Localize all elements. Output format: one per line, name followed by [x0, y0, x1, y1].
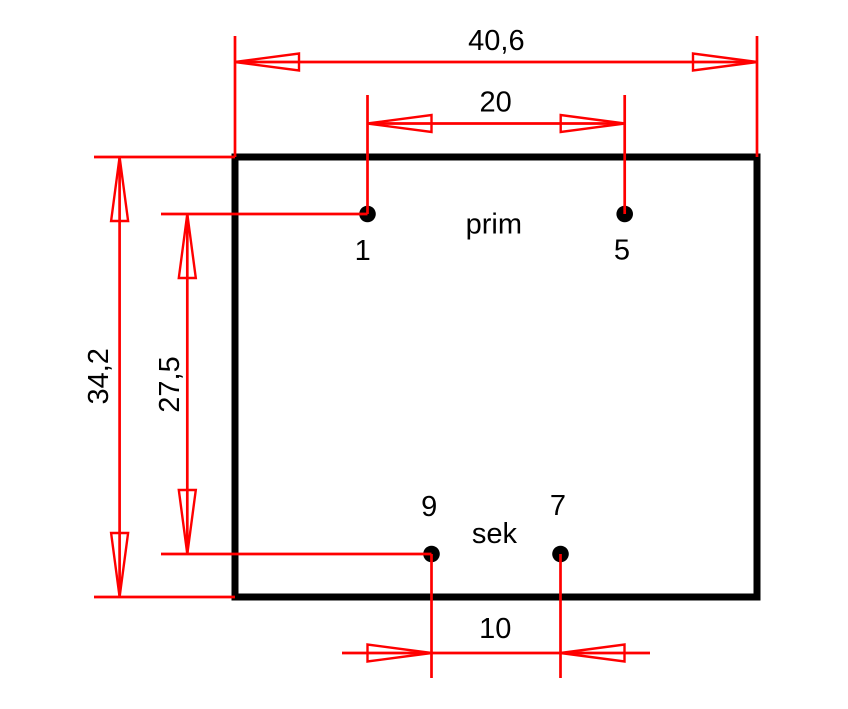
- svg-text:40,6: 40,6: [468, 25, 524, 57]
- dimension label 27,5: [154, 356, 186, 412]
- pin number 7: [550, 490, 566, 522]
- dimension 20 arrowhead left: [368, 115, 432, 132]
- dimension 34,2 extension line bottom: [94, 596, 235, 599]
- pin 9 pad: [423, 546, 440, 563]
- dimension 27,5 extension line top: [161, 213, 368, 216]
- dimension 27,5 arrowhead down: [179, 490, 196, 554]
- svg-text:20: 20: [479, 86, 511, 118]
- svg-text:prim: prim: [466, 208, 522, 240]
- dimension 40,6 arrowhead left: [235, 54, 299, 71]
- svg-text:10: 10: [479, 613, 511, 645]
- dimension 20 arrowhead right: [561, 115, 625, 132]
- pin number 1: [355, 235, 371, 267]
- dimension 40,6 extension line right: [756, 36, 759, 157]
- pin 1 pad: [359, 206, 376, 223]
- winding label sek: [472, 518, 518, 550]
- svg-text:9: 9: [421, 491, 437, 523]
- svg-text:1: 1: [355, 235, 371, 267]
- dimension label 40,6: [468, 25, 524, 57]
- dimension 10 arrowhead right (points left): [561, 645, 625, 662]
- dimension 34,2 arrowhead up: [111, 157, 128, 221]
- svg-text:sek: sek: [472, 518, 518, 550]
- dimension 27,5 extension line bottom: [161, 553, 432, 556]
- svg-text:7: 7: [550, 490, 566, 522]
- dimension 40,6 extension line left: [234, 36, 237, 157]
- svg-text:27,5: 27,5: [154, 356, 186, 412]
- dimension 20 extension line left: [366, 95, 369, 214]
- dimension 40,6 line: [235, 61, 757, 64]
- dimension 40,6 arrowhead right: [693, 54, 757, 71]
- dimension 27,5 arrowhead up: [179, 214, 196, 278]
- dimension 10 extension line from pin 9: [430, 554, 433, 678]
- dimension 27,5 line: [186, 214, 189, 554]
- dimension label 10: [479, 613, 511, 645]
- dimension label 34,2: [83, 348, 115, 404]
- svg-text:5: 5: [614, 235, 630, 267]
- pin number 5: [614, 235, 630, 267]
- dimension 10 line: [342, 652, 650, 655]
- dimension 34,2 arrowhead down: [111, 533, 128, 597]
- pin number 9: [421, 491, 437, 523]
- dimension 10 arrowhead left (points right): [368, 645, 432, 662]
- dimension 34,2 line: [118, 157, 121, 597]
- dimension label 20: [479, 86, 511, 118]
- dimension 34,2 extension line top: [94, 156, 235, 159]
- dimension 10 extension line from pin 7: [559, 554, 562, 678]
- transformer body outline: [235, 157, 757, 597]
- dimension 20 extension line right: [623, 95, 626, 214]
- pin 5 pad: [616, 206, 633, 223]
- dimension 20 line: [368, 122, 625, 125]
- winding label prim: [466, 208, 522, 240]
- pin 7 pad: [552, 546, 569, 563]
- svg-text:34,2: 34,2: [83, 348, 115, 404]
